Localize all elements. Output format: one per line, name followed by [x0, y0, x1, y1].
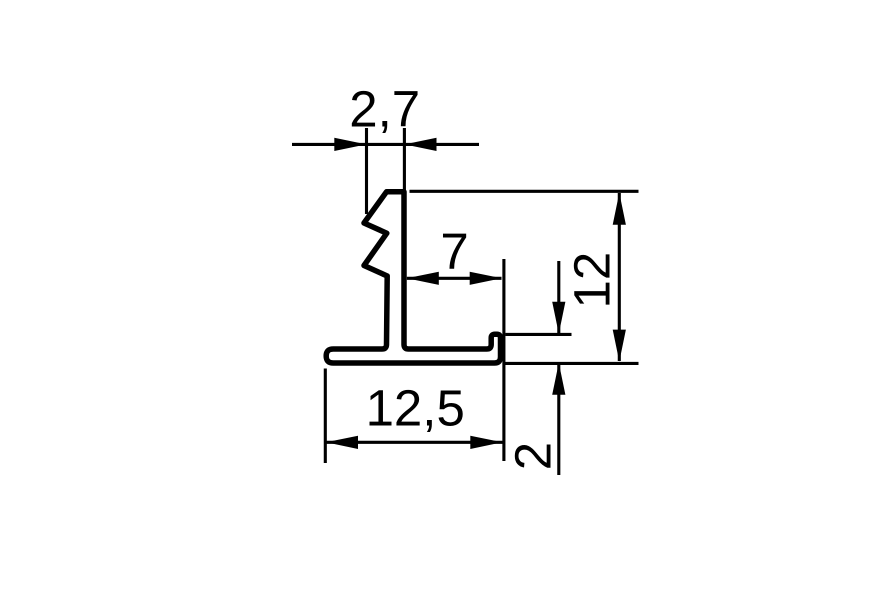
svg-text:2: 2: [505, 442, 562, 470]
svg-text:12: 12: [563, 252, 620, 309]
svg-text:2,7: 2,7: [349, 81, 420, 138]
svg-text:7: 7: [440, 223, 468, 280]
svg-text:12,5: 12,5: [366, 380, 465, 437]
